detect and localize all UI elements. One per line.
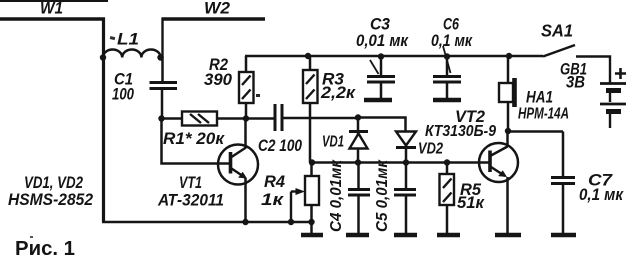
wire collector to C7 [508, 130, 563, 133]
wire SA1 to battery [576, 57, 610, 84]
capacitor C4 [328, 159, 370, 233]
svg-text:VD1: VD1 [322, 134, 344, 151]
svg-text:100: 100 [112, 86, 135, 104]
capacitor C5 [374, 159, 416, 233]
node VD1 bottom [355, 159, 361, 165]
node R2-C2 junction [243, 115, 249, 121]
svg-text:АТ-32011: АТ-32011 [157, 191, 224, 210]
svg-text:НРМ-14А: НРМ-14А [518, 106, 569, 123]
svg-text:390: 390 [204, 71, 233, 89]
ground C7 [551, 233, 576, 237]
node C6 top [444, 53, 450, 59]
diode VD1 [322, 118, 368, 163]
node C1 bottom junction [158, 115, 164, 121]
svg-text:0,1 мк: 0,1 мк [579, 186, 624, 204]
inductor L1 [103, 31, 161, 58]
resistor R4 trimmer [261, 163, 319, 234]
battery GB1 [560, 61, 626, 129]
svg-text:0,01 мк: 0,01 мк [356, 32, 409, 50]
wire W1 down-lead [102, 18, 105, 223]
ground C4 [346, 233, 369, 237]
wire VT1 base [162, 119, 230, 164]
label diodes type [8, 174, 93, 209]
node VD1 top [355, 114, 361, 120]
svg-text:НА1: НА1 [526, 89, 553, 107]
node VT1 emitter [242, 219, 248, 225]
svg-text:W2: W2 [204, 0, 230, 18]
wire detector output line [312, 161, 489, 164]
ground C6 [433, 98, 461, 102]
svg-text:W1: W1 [40, 0, 63, 18]
wire RF to VD2 [358, 118, 406, 132]
svg-text:2,2к: 2,2к [320, 84, 357, 102]
ground R4 [301, 233, 323, 237]
node R4 bottom [308, 219, 314, 225]
capacitor C2 [246, 104, 358, 155]
transistor VT2 [425, 108, 518, 234]
ground R5 [437, 233, 460, 237]
wire +V rail [245, 55, 543, 58]
ground C3 [364, 98, 392, 102]
antenna W1 [0, 0, 105, 19]
svg-text:С2 100: С2 100 [258, 137, 303, 155]
svg-text:L1: L1 [117, 31, 139, 49]
node C3 top [378, 53, 384, 59]
node HA1 top [506, 53, 512, 59]
svg-text:Рис. 1: Рис. 1 [15, 238, 75, 260]
svg-text:3В: 3В [566, 74, 585, 92]
switch SA1 [541, 21, 575, 57]
wire W2 down-lead [161, 18, 163, 59]
svg-text:51к: 51к [457, 194, 486, 212]
antenna W2 [162, 0, 265, 19]
capacitor C1 [112, 58, 177, 120]
ground C5 [394, 233, 417, 237]
node L1 left [100, 54, 106, 60]
resistor R1 [161, 112, 246, 149]
svg-text:С6: С6 [443, 16, 460, 34]
capacitor C7 [551, 132, 624, 234]
svg-text:VD2: VD2 [418, 141, 443, 158]
svg-text:0,1 мк: 0,1 мк [431, 32, 473, 50]
wire ground bus [102, 221, 311, 223]
svg-text:R1* 20к: R1* 20к [163, 130, 226, 148]
transistor VT1 [157, 118, 258, 222]
node L1 right [157, 54, 163, 60]
svg-text:КТ3130Б-9: КТ3130Б-9 [425, 123, 496, 140]
svg-text:VT1: VT1 [179, 174, 202, 192]
node VT2 collector [505, 128, 511, 134]
diode VD2 [396, 132, 443, 163]
resistor R2 [204, 56, 254, 118]
svg-text:С3: С3 [370, 16, 390, 34]
resistor R3 [303, 56, 357, 162]
node R4 top [309, 159, 315, 165]
resistor R5 [440, 163, 486, 234]
node R3 top [305, 53, 311, 59]
svg-text:VD1, VD2: VD1, VD2 [24, 174, 83, 192]
sound emitter HA1 [499, 56, 569, 131]
svg-text:HSMS-2852: HSMS-2852 [8, 191, 93, 209]
svg-text:SA1: SA1 [541, 21, 573, 41]
svg-text:С4 0,01мк: С4 0,01мк [328, 159, 345, 232]
svg-text:R4: R4 [264, 173, 285, 191]
svg-text:1к: 1к [261, 191, 285, 209]
capacitor C6 [431, 16, 473, 99]
node R4 wiper [288, 219, 294, 225]
node VD2 bottom [403, 159, 409, 165]
node R5 top [444, 159, 450, 165]
ground VT2 emitter [495, 233, 521, 237]
capacitor C3 [356, 16, 409, 99]
svg-text:С5 0,01мк: С5 0,01мк [374, 159, 391, 232]
